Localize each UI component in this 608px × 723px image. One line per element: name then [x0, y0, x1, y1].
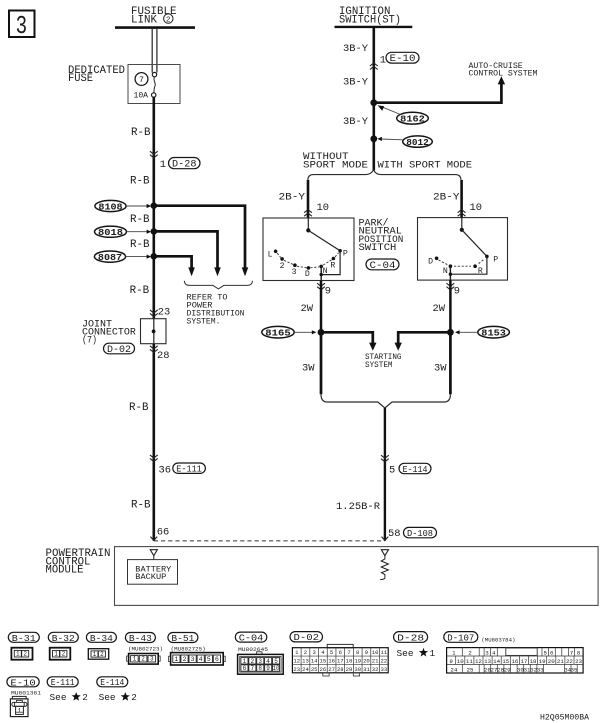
junction dot 8153 — [447, 329, 454, 336]
svg-text:24: 24 — [450, 666, 457, 673]
svg-text:D-02: D-02 — [107, 344, 131, 355]
svg-text:20: 20 — [548, 658, 555, 665]
connector B-32 pinout — [50, 648, 71, 660]
svg-text:9: 9 — [365, 649, 368, 656]
svg-text:4: 4 — [266, 658, 270, 665]
svg-text:5: 5 — [543, 650, 547, 657]
connector B-43 pinout — [127, 656, 129, 661]
svg-text:H2Q05M00BA: H2Q05M00BA — [540, 713, 590, 723]
svg-text:B-43: B-43 — [129, 633, 152, 644]
svg-text:C-04: C-04 — [239, 633, 264, 644]
svg-text:(7): (7) — [82, 335, 97, 347]
svg-text:2: 2 — [183, 656, 187, 663]
svg-text:27: 27 — [328, 666, 335, 673]
connector pass-through E-114 — [381, 455, 389, 462]
switch S2 contact N — [449, 264, 453, 268]
junction dot 8165 — [318, 329, 325, 336]
svg-text:36: 36 — [159, 464, 171, 476]
svg-text:2: 2 — [82, 692, 88, 703]
switch S1 contact 3 — [293, 263, 297, 267]
connector D-28 oval — [394, 632, 428, 643]
svg-text:16: 16 — [511, 658, 518, 665]
splice 8153 — [478, 326, 510, 338]
pointer arrow 8165 — [295, 331, 313, 333]
switch S2 contact D — [435, 257, 439, 261]
svg-text:24: 24 — [302, 666, 309, 673]
svg-text:SPORT MODE: SPORT MODE — [303, 160, 368, 172]
svg-text:9: 9 — [325, 286, 331, 298]
svg-text:1: 1 — [93, 651, 97, 658]
wire - merged to PCM 1.25B-R — [384, 408, 386, 541]
connector C-04 ref — [366, 259, 399, 270]
svg-text:18: 18 — [530, 658, 537, 665]
svg-text:6: 6 — [215, 656, 219, 663]
svg-text:3B-Y: 3B-Y — [343, 77, 369, 89]
svg-text:8153: 8153 — [481, 328, 506, 339]
svg-text:23: 23 — [575, 658, 582, 665]
svg-text:19: 19 — [354, 658, 361, 665]
connector D-02 pinout — [327, 644, 353, 647]
svg-text:2: 2 — [166, 17, 171, 25]
svg-text:8165: 8165 — [265, 328, 291, 339]
svg-text:B-32: B-32 — [52, 633, 75, 644]
svg-text:D-108: D-108 — [407, 528, 433, 539]
svg-text:See: See — [50, 692, 67, 703]
wire - branch to auto-cruise — [374, 83, 502, 103]
svg-text:9: 9 — [266, 665, 270, 672]
svg-text:5: 5 — [389, 465, 395, 477]
svg-text:1: 1 — [243, 658, 247, 665]
svg-text:7: 7 — [347, 649, 350, 656]
svg-text:MODULE: MODULE — [46, 565, 84, 577]
svg-text:R-B: R-B — [130, 239, 150, 251]
connector D-02 oval — [290, 632, 323, 642]
wire - left 2B-Y stub — [307, 180, 310, 218]
svg-text:14: 14 — [493, 658, 500, 665]
svg-text:SYSTEM: SYSTEM — [365, 361, 393, 370]
switch S2 gate dashes — [439, 260, 449, 265]
resistor in PCM — [380, 556, 388, 580]
svg-text:32: 32 — [372, 666, 379, 673]
wire - branch right to starting system — [398, 332, 450, 343]
switch S1 input line — [307, 218, 309, 229]
wire end male half at PCM 66 — [150, 537, 157, 541]
connector B-34 pinout — [88, 649, 108, 660]
svg-text:MU801361: MU801361 — [11, 690, 42, 697]
wire - left main R-B vertical lower — [153, 344, 156, 541]
junction dot 8162 — [370, 99, 377, 106]
svg-text:4: 4 — [199, 656, 203, 663]
ignition switch bus bar — [335, 26, 413, 28]
svg-text:P: P — [493, 256, 498, 265]
svg-text:SWITCH(ST): SWITCH(ST) — [339, 15, 401, 27]
connector E-114 ref — [399, 463, 431, 473]
svg-text:10: 10 — [372, 649, 379, 656]
svg-text:See: See — [397, 648, 414, 659]
wire - right 2W — [449, 280, 452, 332]
svg-text:22: 22 — [380, 658, 387, 665]
svg-text:8162: 8162 — [400, 114, 425, 125]
svg-text:11: 11 — [380, 649, 387, 656]
svg-text:R-B: R-B — [129, 402, 149, 414]
connector B-51 oval — [168, 633, 198, 643]
svg-text:1: 1 — [452, 650, 456, 657]
svg-text:See: See — [99, 692, 116, 703]
svg-text:22: 22 — [566, 658, 573, 665]
svg-text:2B-Y: 2B-Y — [433, 191, 460, 203]
wire - branch from 8018 junction — [154, 231, 218, 268]
svg-text:19: 19 — [539, 658, 546, 665]
battery backup box — [128, 560, 178, 585]
connector E-10 ref — [386, 52, 419, 63]
svg-text:10: 10 — [457, 658, 464, 665]
svg-text:28: 28 — [337, 666, 344, 673]
svg-text:P: P — [343, 250, 348, 259]
wire - branch from 8087 junction — [154, 256, 192, 268]
svg-text:6: 6 — [339, 649, 342, 656]
svg-text:26: 26 — [320, 666, 327, 673]
svg-text:1: 1 — [16, 651, 20, 658]
PCM input female half 66 — [150, 550, 157, 556]
svg-text:1.25B-R: 1.25B-R — [336, 501, 380, 513]
svg-text:2: 2 — [131, 692, 137, 703]
svg-text:29: 29 — [346, 666, 353, 673]
svg-text:10: 10 — [317, 202, 329, 214]
svg-text:D: D — [305, 270, 310, 279]
svg-text:D-28: D-28 — [397, 632, 424, 643]
svg-text:3B-Y: 3B-Y — [343, 43, 369, 55]
svg-text:3: 3 — [191, 656, 195, 663]
fuse terminal bottom — [152, 93, 156, 97]
splice 8162 — [397, 112, 429, 124]
dashed interface line — [154, 540, 385, 542]
connector B-51 pinout — [169, 656, 171, 661]
pointer arrow 8018 — [127, 231, 147, 233]
svg-text:R: R — [330, 261, 335, 270]
splice 8108 — [95, 200, 126, 211]
svg-text:20: 20 — [363, 658, 370, 665]
pointer arrow 8153 — [460, 331, 478, 333]
switch S1 P branch — [321, 251, 340, 275]
switch S2 input line — [461, 218, 463, 228]
wire - left 2W — [320, 281, 323, 333]
svg-text:66: 66 — [157, 527, 169, 539]
svg-text:12: 12 — [475, 658, 482, 665]
connector E-111 ref — [173, 463, 206, 473]
svg-text:2: 2 — [304, 649, 307, 656]
splice 8018 — [95, 226, 127, 237]
svg-text:2: 2 — [23, 651, 27, 658]
switch S1 without sport mode box — [263, 218, 354, 281]
switch S2 wiper — [462, 230, 487, 257]
connector E-114 oval — [97, 677, 128, 687]
svg-text:21: 21 — [557, 658, 564, 665]
svg-text:D-107: D-107 — [447, 632, 474, 643]
svg-text:7: 7 — [250, 665, 254, 672]
svg-text:D: D — [428, 257, 433, 266]
svg-text:8: 8 — [577, 650, 581, 657]
wire - branch left to starting system — [321, 332, 373, 343]
svg-text:30: 30 — [354, 666, 361, 673]
svg-text:16: 16 — [328, 658, 335, 665]
svg-text:BACKUP: BACKUP — [135, 572, 166, 582]
svg-text:23: 23 — [158, 306, 170, 318]
brace under branch arrows — [184, 281, 252, 289]
svg-text:C-04: C-04 — [370, 260, 396, 271]
wire - branch from 8108 junction — [154, 206, 245, 268]
junction dot 8018 — [151, 228, 158, 235]
svg-text:E-10: E-10 — [10, 677, 36, 688]
svg-text:7: 7 — [570, 650, 574, 657]
svg-text:SYSTEM.: SYSTEM. — [187, 317, 221, 326]
svg-text:L: L — [268, 251, 273, 260]
wire - right 3W — [449, 332, 452, 394]
pointer arrow 8087 — [126, 256, 147, 258]
splice 8012 — [403, 136, 433, 147]
switch S1 contact D — [307, 266, 311, 270]
switch S2 N output — [449, 266, 451, 280]
sheet number 3 box — [9, 11, 35, 38]
svg-text:3W: 3W — [434, 362, 447, 374]
fuse box outline — [128, 65, 180, 104]
svg-text:8012: 8012 — [406, 137, 429, 148]
pointer arrow 8162 — [381, 106, 401, 114]
connector B-31 pinout — [11, 648, 32, 660]
svg-text:15: 15 — [320, 658, 327, 665]
connector D-107 oval — [444, 632, 478, 643]
svg-text:E-114: E-114 — [100, 677, 124, 688]
svg-text:3: 3 — [258, 658, 262, 665]
svg-text:B-34: B-34 — [90, 633, 113, 644]
svg-text:2: 2 — [141, 656, 145, 663]
svg-text:1: 1 — [54, 651, 58, 658]
joint connector box — [141, 319, 167, 344]
svg-text:R-B: R-B — [130, 214, 150, 226]
switch S2 contact P — [485, 255, 489, 259]
svg-text:14: 14 — [311, 658, 318, 665]
svg-text:17: 17 — [520, 658, 527, 665]
connector D-02 ref — [104, 343, 135, 354]
svg-text:28: 28 — [157, 350, 169, 362]
junction dot 8108 — [151, 202, 158, 209]
splice 8087 — [94, 251, 125, 262]
switch S1 contact N — [319, 265, 323, 269]
svg-text:N: N — [443, 267, 448, 276]
fuse element — [154, 77, 156, 93]
svg-text:MU802645: MU802645 — [238, 646, 269, 653]
switch S1 contact 2 — [280, 257, 284, 261]
svg-text:R-B: R-B — [131, 127, 151, 139]
svg-text:3: 3 — [312, 649, 315, 656]
switch S1 contact L — [274, 250, 278, 254]
splice 8165 — [262, 326, 294, 338]
svg-text:23: 23 — [293, 666, 300, 673]
svg-text:5: 5 — [207, 656, 211, 663]
pin 23 label — [150, 310, 158, 317]
svg-text:(MU802725): (MU802725) — [171, 646, 206, 653]
svg-text:2W: 2W — [433, 303, 446, 315]
PCM input female half 58 — [381, 550, 388, 556]
svg-text:10A: 10A — [134, 92, 149, 101]
svg-text:3: 3 — [485, 650, 489, 657]
svg-text:13: 13 — [302, 658, 309, 665]
connector pass-through to E-111 — [150, 455, 158, 462]
svg-text:11: 11 — [466, 658, 473, 665]
switch S1 contact R — [332, 257, 336, 261]
svg-text:D-28: D-28 — [172, 159, 197, 170]
wire - fusible link double line — [151, 29, 153, 73]
svg-text:4: 4 — [492, 650, 496, 657]
svg-text:17: 17 — [337, 658, 344, 665]
svg-text:8108: 8108 — [98, 201, 122, 212]
svg-text:18: 18 — [346, 658, 353, 665]
connector pass-through to D-28 — [150, 151, 158, 158]
svg-text:33: 33 — [537, 666, 544, 673]
svg-text:2: 2 — [250, 658, 254, 665]
svg-text:1: 1 — [133, 656, 137, 663]
svg-text:E-10: E-10 — [390, 53, 416, 64]
svg-text:D-02: D-02 — [294, 632, 320, 643]
svg-text:25: 25 — [467, 666, 474, 673]
svg-text:35: 35 — [571, 666, 578, 673]
svg-text:1: 1 — [430, 648, 436, 659]
svg-text:2: 2 — [62, 651, 66, 658]
merge brace — [321, 394, 450, 408]
connector E-10 oval — [7, 677, 39, 687]
svg-text:B-51: B-51 — [171, 633, 194, 644]
svg-text:1: 1 — [18, 708, 22, 715]
fuse circle 7 — [135, 73, 148, 86]
wire end male half at PCM 58 — [382, 537, 389, 541]
connector pass-through E-10 — [370, 63, 378, 70]
svg-text:2B-Y: 2B-Y — [279, 191, 306, 203]
svg-text:(MU803784): (MU803784) — [481, 636, 515, 643]
fusible link bus bar — [115, 26, 195, 29]
svg-text:E-111: E-111 — [176, 464, 202, 475]
svg-text:5: 5 — [330, 649, 333, 656]
connector B-32 oval — [48, 632, 78, 642]
wire - left main R-B through joint connector — [153, 319, 155, 344]
connector C-04 pinout — [257, 652, 262, 655]
svg-text:15: 15 — [502, 658, 509, 665]
pointer arrow 8108 — [126, 205, 147, 207]
switch S1 gate dashes — [277, 253, 281, 257]
svg-text:7: 7 — [139, 76, 144, 85]
svg-text:33: 33 — [380, 666, 387, 673]
svg-text:LINK: LINK — [131, 15, 158, 27]
svg-text:3B-Y: 3B-Y — [343, 116, 369, 128]
connector B-43 oval — [125, 633, 155, 643]
pin 28 label — [150, 346, 158, 353]
split brace — [308, 170, 461, 180]
switch S2 P branch — [450, 256, 487, 274]
svg-text:SWITCH: SWITCH — [359, 243, 397, 254]
svg-text:10: 10 — [470, 202, 482, 214]
svg-text:1: 1 — [160, 159, 166, 171]
junction dot 8012 — [370, 135, 377, 142]
svg-text:5: 5 — [274, 658, 278, 665]
connector B-31 oval — [8, 632, 39, 642]
svg-text:R-B: R-B — [131, 499, 151, 511]
connector C-04 oval — [235, 632, 266, 642]
svg-text:6: 6 — [550, 650, 554, 657]
svg-text:21: 21 — [372, 658, 379, 665]
svg-text:E-114: E-114 — [403, 464, 428, 475]
svg-text:31: 31 — [363, 666, 370, 673]
connector B-34 oval — [86, 632, 116, 642]
svg-text:9: 9 — [449, 658, 453, 665]
connector E-111 oval — [47, 677, 78, 687]
svg-text:3W: 3W — [302, 362, 315, 374]
svg-text:12: 12 — [293, 658, 300, 665]
svg-text:3: 3 — [16, 11, 28, 41]
pin 9 right — [447, 283, 455, 290]
svg-text:R-B: R-B — [130, 175, 150, 187]
wire - left main R-B vertical upper — [153, 97, 156, 318]
svg-text:8: 8 — [258, 665, 262, 672]
switch S2 contact R — [473, 264, 477, 268]
svg-text:25: 25 — [311, 666, 318, 673]
svg-text:B-31: B-31 — [12, 633, 36, 644]
svg-text:(MU802723): (MU802723) — [128, 646, 163, 653]
svg-text:3: 3 — [150, 656, 154, 663]
pointer arrow 8012 — [382, 138, 403, 141]
fuse terminal top — [152, 72, 156, 76]
wire - right 2B-Y stub — [460, 180, 463, 218]
svg-text:E-111: E-111 — [51, 677, 75, 688]
svg-text:CONTROL SYSTEM: CONTROL SYSTEM — [469, 70, 538, 79]
svg-text:WITH SPORT MODE: WITH SPORT MODE — [378, 160, 473, 172]
svg-text:R-B: R-B — [130, 285, 150, 297]
svg-text:1: 1 — [174, 656, 178, 663]
powertrain control module box — [115, 547, 599, 606]
svg-text:6: 6 — [243, 665, 247, 672]
svg-text:2W: 2W — [301, 303, 314, 315]
svg-text:FUSE: FUSE — [68, 73, 93, 85]
svg-text:8018: 8018 — [98, 227, 123, 238]
connector D-108 ref — [404, 527, 437, 537]
svg-text:10: 10 — [272, 665, 280, 672]
svg-text:2: 2 — [100, 651, 104, 658]
svg-text:2: 2 — [280, 262, 285, 271]
pin 9 left — [317, 283, 325, 290]
svg-text:2: 2 — [468, 650, 472, 657]
svg-text:8: 8 — [356, 649, 359, 656]
svg-text:9: 9 — [454, 286, 460, 298]
switch S1 contact P — [338, 249, 342, 253]
connector D-28 ref — [169, 158, 201, 169]
svg-text:8087: 8087 — [98, 252, 122, 263]
svg-text:58: 58 — [388, 528, 400, 540]
svg-text:13: 13 — [484, 658, 491, 665]
svg-text:1: 1 — [380, 54, 386, 66]
svg-text:3: 3 — [292, 268, 297, 277]
wire - left 3W — [320, 332, 323, 394]
connector D-107 pinout — [447, 648, 583, 673]
switch S1 N output — [320, 266, 322, 280]
wire - ignition vertical 3B-Y — [372, 28, 375, 171]
junction dot 8087 — [151, 253, 158, 260]
switch S1 wiper — [308, 230, 340, 250]
switch S2 with sport mode box — [418, 218, 508, 281]
connector E-10 pinout — [12, 696, 26, 699]
svg-text:29: 29 — [504, 666, 511, 673]
